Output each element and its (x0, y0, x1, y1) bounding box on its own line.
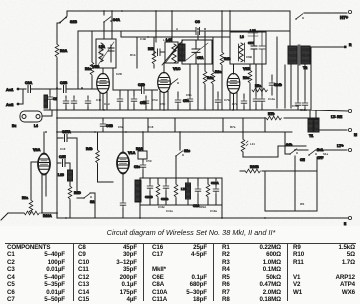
wire feeds block2 (156, 11, 172, 42)
wire S1C down (175, 157, 177, 178)
wire under block3 (190, 64, 198, 110)
capacitor C2A (19, 86, 57, 93)
wire block3 feed (197, 31, 199, 40)
capacitor C13B ground bus (243, 94, 245, 98)
resistor R6A (249, 64, 251, 70)
switch S1C (179, 132, 181, 150)
wire V1A top (122, 132, 124, 152)
wire choke elbow (243, 146, 306, 157)
capacitor C13A (120, 200, 126, 208)
wire block2 to tube (163, 63, 165, 73)
capacitor C2D (113, 68, 141, 90)
coil L7A (187, 178, 189, 183)
capacitor C10D (149, 178, 151, 183)
resistor R5B (175, 178, 177, 184)
capacitor C16B (295, 100, 301, 108)
wire ground bus (44, 110, 348, 111)
coil L4B dense (135, 180, 141, 202)
capacitor C6C (255, 64, 257, 96)
resistor R10A (1, 213, 24, 220)
wire block4 to tube (233, 64, 235, 74)
capacitor C12A (215, 178, 217, 186)
switch S1B (66, 11, 68, 16)
resistor R1A (207, 178, 209, 184)
tube V1B (97, 74, 110, 94)
terminal LT- (348, 109, 351, 112)
small caps on ground bus (66, 96, 74, 110)
wire terminal R line (311, 46, 344, 48)
wire tube2 pins (160, 92, 168, 111)
tube V1A (117, 153, 130, 173)
tube V1D (227, 74, 240, 94)
wire left rail (56, 58, 58, 213)
wire LT+ line (285, 150, 347, 154)
resistor R2B (221, 11, 223, 52)
caption (11, 228, 360, 237)
capacitor C2E (57, 160, 70, 167)
capacitor C14B (271, 75, 273, 80)
tiny scatter labels (60, 27, 329, 213)
coil L5A block2 (137, 37, 185, 68)
capacitor C5B (145, 96, 147, 98)
capacitor C3B ground bus (119, 90, 121, 96)
capacitor C3C (142, 159, 144, 162)
wire T2 verticals (277, 37, 291, 108)
wire tube1 pins (100, 93, 107, 111)
wire bus3 (121, 36, 230, 38)
capacitor C11B ground bus (217, 92, 219, 97)
capacitor C17A (57, 135, 77, 142)
column separator 4 (286, 244, 289, 301)
wire filament bus (57, 117, 308, 119)
switch S1D (170, 79, 179, 85)
resistor R3A box (142, 132, 144, 151)
resistor R7B (266, 116, 281, 120)
tuned circuit C5A block3 (182, 40, 212, 64)
transformer T1 (308, 111, 319, 138)
wire x77 drop (76, 138, 78, 194)
column separator 1 (72, 244, 75, 301)
resistor R10B (245, 169, 260, 173)
resistor R6B (157, 178, 159, 184)
capacitor C1A aerial trim (49, 89, 51, 94)
terminal HT+ (348, 10, 351, 13)
choke L11 (242, 132, 244, 139)
resistor R4A (204, 31, 206, 71)
coil L3A (44, 95, 48, 108)
wire S2 stub (77, 193, 95, 218)
wire x82 lower (91, 76, 93, 88)
coil L8A (248, 33, 258, 36)
wire block1 to tube (102, 68, 104, 74)
terminal Ae1 (17, 88, 20, 91)
capacitor C6D (261, 64, 263, 96)
resistor R5A (252, 88, 267, 92)
wire Ae2 up (19, 89, 23, 104)
resistor R4D (69, 181, 71, 186)
capacitor C6 (196, 28, 204, 35)
terminal LT+ (348, 148, 351, 151)
wire V2A bottom (42, 175, 46, 214)
wire grid stubs (128, 90, 152, 110)
switch HT on-off (295, 14, 304, 20)
transformer L4A block1 (96, 39, 116, 68)
coil L10 (69, 163, 71, 170)
tuned block L5B (230, 32, 266, 64)
table top rule (5, 242, 356, 245)
wire to HT+ terminal (290, 11, 347, 46)
wire rail links (123, 118, 265, 132)
wire M line (319, 129, 347, 131)
wire S1B drop (57, 23, 60, 44)
wire V2A grid down (31, 162, 39, 200)
capacitor C5C (187, 96, 193, 104)
capacitor C6B (102, 118, 104, 121)
resistor R4B mid (97, 132, 99, 150)
capacitor C4C ground bus (87, 96, 89, 98)
wire bus2 (78, 30, 290, 32)
column separator 2 (142, 244, 145, 301)
switch S4A (103, 17, 112, 23)
wire rail132 (57, 131, 292, 133)
capacitor C15A (302, 100, 308, 108)
tube V1C (158, 73, 171, 93)
resistor R3A top (212, 37, 214, 71)
wire T2 drops (298, 47, 311, 110)
wire feeds block1 (111, 11, 113, 39)
wire HT bus top (67, 10, 290, 12)
wire S4A top (103, 11, 105, 15)
wire osc rail bottom (140, 178, 222, 218)
wire V1A bottom cap (122, 174, 124, 200)
resistor R2A (55, 44, 59, 57)
capacitor C7B ground bus (177, 92, 179, 97)
terminal bottom right (348, 216, 351, 219)
wire S4A to bus3 (104, 22, 121, 39)
wire block4 feed (229, 11, 231, 32)
capacitor C9A (197, 178, 199, 186)
resistor R1A grid (90, 62, 94, 75)
terminal Ae2 (17, 103, 20, 106)
wire R4D down (69, 200, 71, 218)
switch S4B (289, 149, 298, 155)
capacitor C1A ground bus (133, 90, 135, 96)
terminal R (344, 46, 347, 49)
wire osc rail top (140, 177, 222, 179)
capacitor C10B (165, 178, 167, 183)
column separator 3 (212, 244, 215, 301)
resistor R8A (29, 200, 33, 213)
wire battery drops (265, 132, 317, 211)
coil L1A box (20, 111, 42, 122)
capacitor C2B (57, 88, 61, 90)
tube V2A (38, 154, 51, 174)
wire vert x82 (78, 31, 92, 88)
switch battery on-off (308, 150, 317, 156)
switch S2 (83, 193, 92, 199)
wire bottom bus (57, 213, 348, 218)
transformer T2 (288, 45, 310, 70)
wire tube3 pins (230, 93, 237, 111)
wire box to bus (42, 110, 52, 116)
wire V2A top (43, 132, 45, 153)
terminal M (348, 128, 351, 131)
